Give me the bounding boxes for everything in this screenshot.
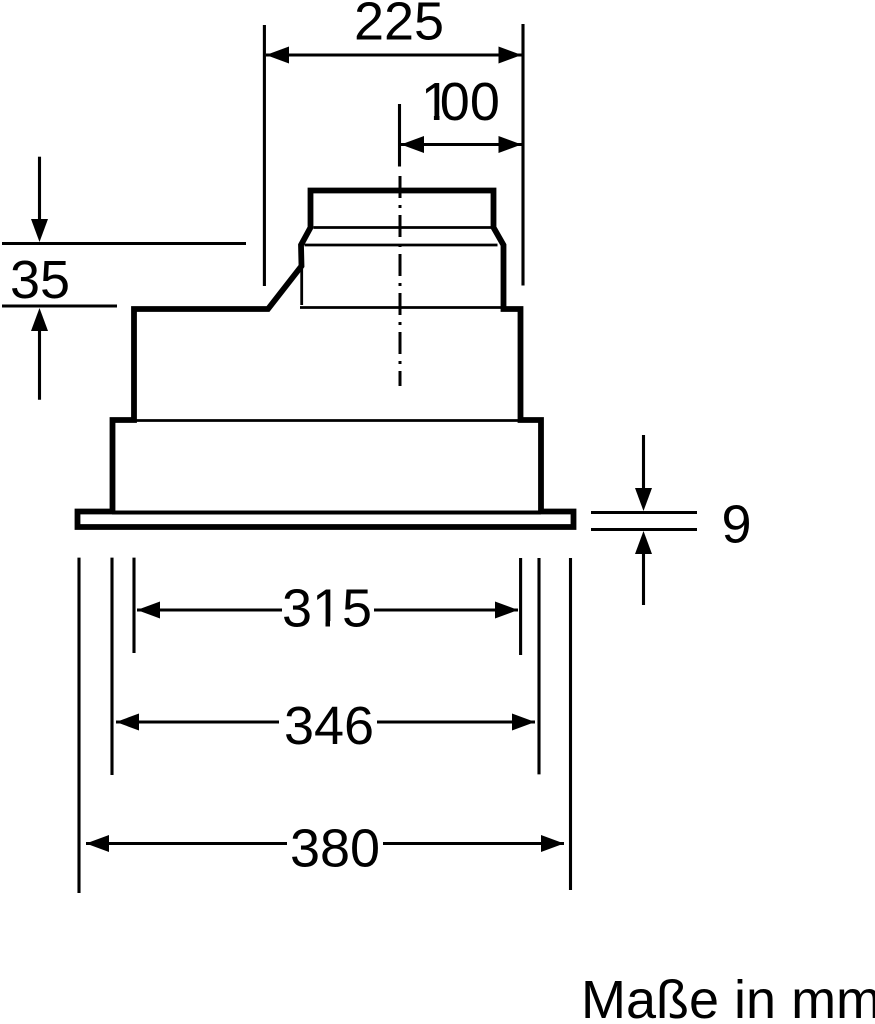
arrowhead 346 right — [512, 714, 535, 731]
arrowhead 315 right — [495, 602, 518, 619]
svg-text:380: 380 — [290, 819, 380, 879]
svg-text:00: 00 — [440, 72, 500, 132]
dimension line 100 — [401, 143, 522, 146]
dimension line 346 right segment — [377, 720, 535, 723]
extension line 380 right — [569, 558, 572, 890]
35 down arrow line — [38, 157, 41, 220]
dimension line 380 right segment — [383, 842, 564, 845]
duct collar inner line upper — [314, 226, 492, 229]
arrowhead 380 right — [541, 835, 564, 852]
extension line 315 left — [132, 558, 135, 653]
arrowhead 100 left — [401, 136, 424, 153]
extension line 346 right — [537, 558, 540, 774]
white mask over digit-1 foot — [423, 115, 434, 123]
flange top line — [112, 511, 541, 515]
svg-text:225: 225 — [354, 0, 444, 52]
extension line 225 left — [263, 25, 266, 286]
arrowhead 225 right — [499, 47, 522, 64]
arrowhead 346 left — [116, 714, 139, 731]
35 down arrowhead — [31, 219, 48, 242]
extension line 315 right — [519, 558, 522, 655]
35 up arrow line — [38, 330, 41, 400]
dimension line 380 left segment — [86, 842, 287, 845]
9 down arrow line — [642, 435, 645, 489]
white mask over digit-1 foot — [315, 621, 326, 628]
dimension line 225 — [266, 53, 522, 56]
35 reference line lower — [2, 304, 117, 307]
extension line 100 left — [398, 104, 401, 167]
35 reference line upper — [2, 242, 246, 245]
hood top edge thin line — [300, 306, 501, 309]
svg-text:346: 346 — [284, 696, 374, 756]
35 up arrowhead — [31, 308, 48, 331]
body step inner line — [135, 419, 519, 422]
9 down arrowhead — [635, 488, 652, 511]
9 up arrow line — [642, 553, 645, 605]
arrowhead 100 right — [499, 136, 522, 153]
duct collar inner line lower — [305, 244, 498, 247]
svg-text:35: 35 — [10, 250, 70, 310]
center line — [399, 176, 402, 386]
svg-text:Maße in mm: Maße in mm — [581, 970, 875, 1024]
dimension line 346 left segment — [116, 720, 279, 723]
extension line 346 left — [110, 558, 113, 775]
arrowhead 225 left — [266, 47, 289, 64]
arrowhead 315 left — [137, 602, 160, 619]
arrowhead 380 left — [86, 835, 109, 852]
9 reference line lower — [591, 528, 697, 531]
extension line 225/100 right — [521, 24, 524, 286]
svg-text:9: 9 — [721, 495, 751, 555]
9 up arrowhead — [635, 531, 652, 554]
svg-text:315: 315 — [282, 579, 372, 639]
extension line 380 left — [77, 558, 80, 893]
hood body outline — [78, 191, 574, 528]
9 reference line upper — [591, 511, 697, 514]
dimension line 315 right segment — [374, 608, 518, 611]
dimension line 315 left segment — [137, 608, 282, 611]
duct hidden edge — [300, 266, 303, 305]
